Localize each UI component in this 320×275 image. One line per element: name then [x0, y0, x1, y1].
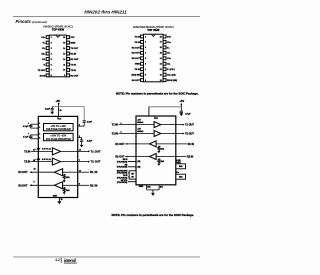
- svg-text:C3+ (24): C3+ (24): [167, 74, 176, 77]
- svg-text:R2 OUT: R2 OUT: [71, 75, 80, 77]
- svg-text:C1-: C1-: [42, 48, 46, 50]
- svg-text:R1 OUT: R1 OUT: [115, 143, 125, 146]
- svg-text:7: 7: [145, 69, 146, 71]
- svg-text:11: 11: [63, 64, 65, 66]
- svg-text:400kΩ: 400kΩ: [137, 130, 143, 133]
- svg-text:5kΩ: 5kΩ: [66, 177, 70, 179]
- svg-text:10: 10: [160, 80, 162, 82]
- svg-text:C1+: C1+: [41, 37, 46, 39]
- svg-text:3: 3: [39, 127, 40, 129]
- svg-text:(17): (17): [160, 186, 163, 188]
- svg-text:8: 8: [79, 184, 80, 186]
- svg-text:4: 4: [145, 52, 146, 55]
- svg-text:HIN202 thru HIN211: HIN202 thru HIN211: [84, 9, 127, 14]
- svg-text:1: 1: [51, 37, 52, 39]
- svg-text:T2 IN: T2 IN: [112, 132, 118, 135]
- svg-text:R1 IN: R1 IN: [71, 53, 77, 55]
- svg-text:R2 OUT: R2 OUT: [18, 184, 28, 187]
- svg-text:6: 6: [79, 136, 80, 138]
- svg-text:C2-: C2-: [167, 64, 171, 66]
- svg-text:7: 7: [79, 160, 80, 162]
- svg-text:16: 16: [160, 47, 162, 49]
- svg-text:R2 OUT: R2 OUT: [132, 53, 141, 55]
- svg-text:2: 2: [51, 42, 52, 44]
- svg-text:intersil: intersil: [64, 258, 77, 263]
- svg-text:9: 9: [34, 182, 35, 184]
- svg-text:T2 IN: T2 IN: [24, 161, 30, 164]
- svg-text:T1 IN: T1 IN: [112, 124, 118, 127]
- svg-text:2: 2: [145, 42, 146, 44]
- svg-text:5 (25): 5 (25): [176, 160, 181, 162]
- svg-text:T1 OUT: T1 OUT: [91, 149, 101, 153]
- svg-text:1: 1: [121, 123, 122, 125]
- svg-text:VOLTAGE DOUBLER: VOLTAGE DOUBLER: [46, 128, 71, 131]
- svg-text:13: 13: [160, 64, 162, 66]
- svg-text:8: 8: [145, 74, 146, 76]
- svg-text:(TTL/CMOS): (TTL/CMOS): [117, 182, 128, 184]
- svg-text:C1+: C1+: [167, 42, 172, 44]
- svg-text:13: 13: [79, 170, 81, 172]
- svg-text:16: 16: [60, 110, 62, 112]
- svg-text:(NC) EN: (NC) EN: [132, 75, 141, 77]
- svg-text:T2 IN: T2 IN: [71, 70, 77, 72]
- svg-text:R3 OUT: R3 OUT: [132, 58, 141, 60]
- svg-text:4.7µF: 4.7µF: [87, 139, 93, 142]
- svg-text:V- (C3-): V- (C3-): [167, 69, 175, 71]
- svg-text:(TTL/CMOS): (TTL/CMOS): [117, 161, 128, 163]
- svg-text:R4 OUT: R4 OUT: [132, 79, 141, 82]
- svg-text:12: 12: [34, 169, 36, 171]
- svg-text:+5V 400kΩ: +5V 400kΩ: [35, 158, 51, 161]
- svg-text:C1-: C1-: [167, 53, 171, 55]
- svg-text:5: 5: [51, 59, 52, 61]
- svg-text:T1 IN: T1 IN: [24, 150, 30, 153]
- svg-text:13: 13: [63, 53, 65, 55]
- svg-text:T2 OUT: T2 OUT: [91, 160, 101, 164]
- svg-text:R2 IN: R2 IN: [187, 155, 194, 158]
- svg-text:NOTE: Pin numbers in parenthes: NOTE: Pin numbers in parenthesis are for…: [112, 213, 195, 217]
- svg-text:15: 15: [160, 53, 162, 55]
- svg-text:11: 11: [160, 74, 162, 76]
- svg-text:2: 2: [79, 125, 80, 127]
- svg-text:5kΩ: 5kΩ: [179, 166, 183, 168]
- svg-text:GND: GND: [135, 64, 140, 66]
- svg-text:400kΩ: 400kΩ: [137, 121, 143, 124]
- svg-text:C2-: C2-: [42, 59, 46, 61]
- svg-text:2 b: 2 b: [176, 172, 178, 174]
- svg-text:6: 6: [51, 64, 52, 66]
- svg-text:GND: GND: [53, 195, 58, 197]
- svg-text:GND: GND: [139, 186, 144, 188]
- svg-text:4.7µF: 4.7µF: [87, 120, 93, 123]
- svg-text:R1 OUT: R1 OUT: [71, 59, 80, 61]
- svg-text:R1 OUT: R1 OUT: [132, 47, 141, 49]
- svg-text:12: 12: [160, 69, 162, 71]
- svg-text:T2 IN: T2 IN: [134, 42, 140, 44]
- svg-text:4-2: 4-2: [55, 258, 60, 262]
- svg-text:R2 IN: R2 IN: [40, 75, 46, 77]
- svg-text:1: 1: [39, 123, 40, 125]
- svg-text:9: 9: [145, 80, 146, 82]
- svg-text:2: 2: [121, 132, 122, 134]
- svg-text:15: 15: [61, 199, 63, 201]
- svg-text:15: 15: [63, 42, 65, 44]
- svg-text:(23): (23): [138, 161, 141, 163]
- svg-text:+5V 400kΩ: +5V 400kΩ: [35, 148, 51, 151]
- svg-text:TOP VIEW: TOP VIEW: [52, 28, 65, 31]
- svg-text:10: 10: [63, 70, 65, 72]
- svg-text:4: 4: [51, 52, 52, 55]
- svg-text:TOP VIEW: TOP VIEW: [147, 29, 160, 32]
- svg-text:0.1µF: 0.1µF: [45, 108, 51, 110]
- svg-text:T3 IN: T3 IN: [134, 69, 140, 71]
- svg-text:+5V: +5V: [180, 99, 185, 103]
- svg-text:C2+: C2+: [41, 53, 46, 55]
- svg-text:V-: V-: [43, 64, 45, 66]
- svg-text:4.7µF: 4.7µF: [185, 112, 191, 115]
- svg-text:5kΩ: 5kΩ: [179, 177, 183, 179]
- svg-text:NOTE: Pin numbers in parenthes: NOTE: Pin numbers in parenthesis are for…: [116, 91, 199, 95]
- svg-text:C2+: C2+: [167, 58, 172, 60]
- svg-text:5: 5: [145, 58, 146, 60]
- svg-text:14: 14: [79, 149, 81, 152]
- svg-text:3: 3: [51, 48, 52, 50]
- svg-text:7: 7: [51, 70, 52, 72]
- svg-text:5kΩ: 5kΩ: [161, 161, 165, 163]
- svg-text:R2 IN: R2 IN: [90, 183, 97, 187]
- svg-text:R2 OUT: R2 OUT: [115, 155, 125, 158]
- svg-text:R1 OUT: R1 OUT: [18, 171, 28, 174]
- svg-text:R1 IN: R1 IN: [90, 170, 97, 174]
- svg-text:T1 OUT: T1 OUT: [71, 48, 79, 50]
- svg-text:12: 12: [63, 59, 65, 61]
- svg-text:8: 8: [51, 75, 52, 77]
- svg-text:(TTL/CMOS): (TTL/CMOS): [117, 167, 128, 169]
- svg-text:VOLTAGE INVERTER: VOLTAGE INVERTER: [46, 138, 71, 141]
- svg-text:T2 OUT: T2 OUT: [185, 132, 194, 135]
- svg-text:GND: GND: [71, 43, 76, 45]
- svg-text:T1 OUT: T1 OUT: [185, 124, 194, 127]
- svg-text:5kΩ: 5kΩ: [66, 190, 70, 192]
- svg-text:5: 5: [39, 138, 40, 140]
- svg-text:R1 IN: R1 IN: [188, 143, 195, 146]
- svg-text:9: 9: [64, 75, 65, 77]
- svg-text:17: 17: [160, 42, 162, 44]
- svg-text:14: 14: [160, 57, 162, 60]
- svg-text:1: 1: [145, 36, 146, 38]
- svg-text:18: 18: [160, 36, 162, 38]
- svg-text:T2 OUT: T2 OUT: [38, 70, 46, 72]
- svg-text:(16): (16): [147, 186, 150, 188]
- svg-text:14: 14: [63, 47, 65, 50]
- svg-text:T1 IN: T1 IN: [71, 64, 77, 66]
- svg-text:4.7µF: 4.7µF: [23, 125, 29, 128]
- svg-text:3: 3: [145, 47, 146, 49]
- svg-text:16: 16: [63, 37, 65, 39]
- svg-text:4.7µF: 4.7µF: [23, 136, 29, 139]
- svg-text:T1 IN: T1 IN: [134, 36, 140, 38]
- svg-text:6: 6: [145, 64, 146, 66]
- svg-text:5kΩ: 5kΩ: [161, 148, 165, 150]
- svg-text:R5 IN (25): R5 IN (25): [167, 80, 177, 82]
- svg-text:+5V: +5V: [55, 99, 60, 103]
